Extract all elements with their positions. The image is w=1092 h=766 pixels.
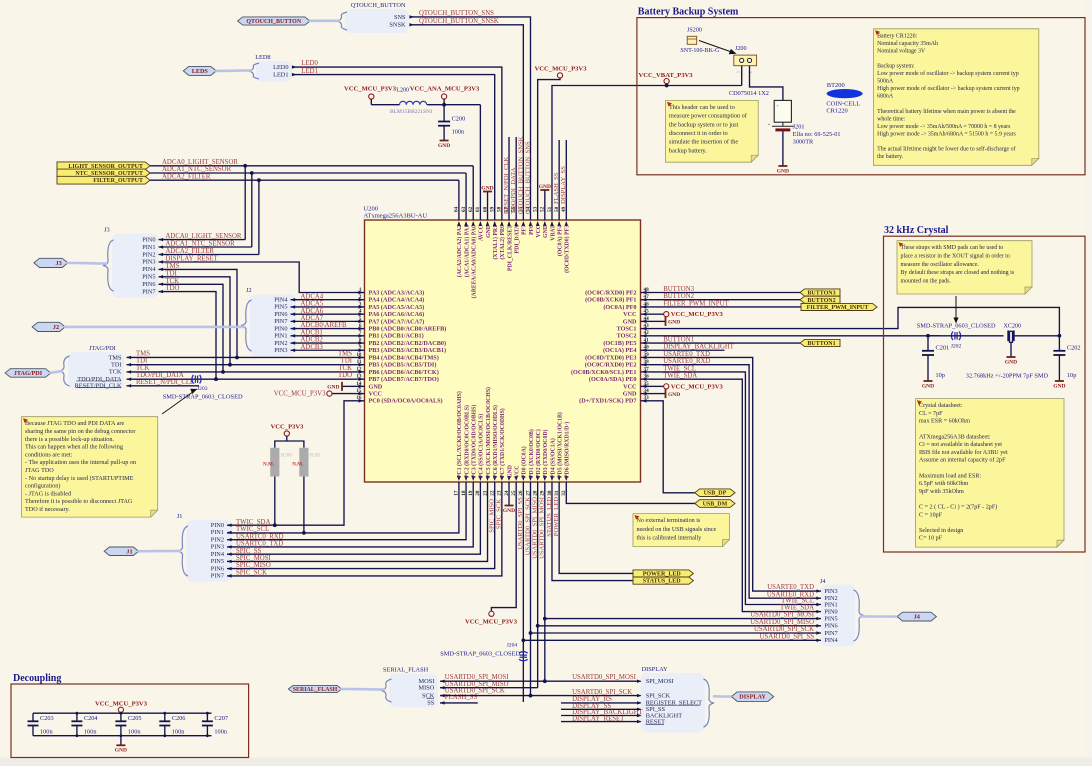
svg-text:PIN7: PIN7 bbox=[211, 573, 224, 580]
wire J3 pin4 TMS down bbox=[159, 269, 238, 357]
wire J200 pin2 to battery bbox=[750, 66, 783, 101]
svg-text:PD5 (MOSI/XCK1/OC1B): PD5 (MOSI/XCK1/OC1B) bbox=[556, 412, 563, 478]
svg-text:PA7 (ADCA7/ACA7): PA7 (ADCA7/ACA7) bbox=[369, 318, 425, 325]
U200 pin 9 PB3 bbox=[355, 349, 365, 351]
svg-text:J202: J202 bbox=[951, 344, 962, 350]
wire SF SCK row bbox=[440, 695, 531, 697]
svg-text:LEDS: LEDS bbox=[192, 68, 209, 75]
wire ADCA0 column to PA0 bbox=[472, 166, 474, 210]
svg-text:VCC_MCU_P3V3: VCC_MCU_P3V3 bbox=[465, 618, 518, 625]
connector J2 bracket bbox=[250, 295, 296, 357]
svg-text:J3: J3 bbox=[104, 227, 110, 234]
svg-text:SERIAL_FLASH: SERIAL_FLASH bbox=[383, 667, 429, 674]
svg-text:J3: J3 bbox=[56, 260, 62, 267]
svg-text:GND: GND bbox=[623, 318, 637, 325]
svg-text:(ACA2/ADCA2) PA2: (ACA2/ADCA2) PA2 bbox=[456, 225, 463, 277]
port USB_DM bbox=[695, 500, 735, 508]
svg-text:GND: GND bbox=[507, 465, 513, 478]
svg-text:These straps with SMD pads can: These straps with SMD pads can be used t… bbox=[901, 245, 1004, 251]
svg-text:SS: SS bbox=[427, 700, 435, 707]
svg-text:AVCC: AVCC bbox=[479, 225, 485, 241]
U200 pin 20 PC4 (bottom) bbox=[479, 482, 481, 492]
svg-text:32 kHz Crystal: 32 kHz Crystal bbox=[884, 225, 949, 236]
wire VBAT to battery box bbox=[552, 86, 742, 211]
svg-text:High power mode -> 35mAh/680nA: High power mode -> 35mAh/680nA = 51500 h… bbox=[877, 131, 1016, 137]
svg-text:TDO: TDO bbox=[338, 372, 352, 379]
port BUTTON2 bbox=[800, 296, 840, 303]
svg-text:SPIC_MISO: SPIC_MISO bbox=[489, 499, 496, 533]
svg-text:10p: 10p bbox=[1067, 372, 1076, 379]
svg-text:XC200: XC200 bbox=[1004, 324, 1022, 330]
svg-text:Maximum load and ESR:: Maximum load and ESR: bbox=[919, 473, 981, 479]
wire J3 pin1 to ADCA1 bbox=[159, 246, 252, 248]
svg-text:PIN6: PIN6 bbox=[274, 311, 287, 318]
svg-text:43: 43 bbox=[644, 323, 650, 329]
svg-text:PIN6: PIN6 bbox=[142, 281, 155, 288]
svg-text:PB2 (ADCB2/ACB2/DACB0): PB2 (ADCB2/ACB2/DACB0) bbox=[369, 340, 447, 347]
wire J3 pin3 display_reset to PA3 pin1 bbox=[159, 262, 355, 293]
svg-text:USARTD0_SPI_SCK: USARTD0_SPI_SCK bbox=[572, 689, 632, 696]
svg-text:SMD-STRAP_0603_CLOSED: SMD-STRAP_0603_CLOSED bbox=[440, 651, 520, 658]
wire ADCA1 ntc row bbox=[150, 172, 466, 174]
svg-text:GND: GND bbox=[922, 383, 934, 389]
svg-text:IBIS file not available for A3: IBIS file not available for A3BU yet bbox=[919, 449, 1008, 456]
svg-text:PIN0: PIN0 bbox=[211, 522, 224, 529]
arrow JS200 to J200 bbox=[699, 41, 733, 53]
decoupling bottom rail bbox=[33, 735, 212, 737]
svg-text:QTOUCH_BUTTON: QTOUCH_BUTTON bbox=[351, 2, 406, 9]
U200 pin 14 GND bbox=[355, 385, 365, 387]
svg-text:(OC0A/SDA) PE0: (OC0A/SDA) PE0 bbox=[589, 376, 637, 383]
svg-text:R201: R201 bbox=[310, 454, 321, 459]
svg-text:GND: GND bbox=[777, 168, 789, 174]
svg-text:TWIC_SCL: TWIC_SCL bbox=[236, 526, 269, 533]
svg-text:PIN5: PIN5 bbox=[274, 304, 287, 311]
svg-text:sharing the same pin on the de: sharing the same pin on the debug connec… bbox=[25, 428, 135, 435]
svg-text:PIN7: PIN7 bbox=[824, 630, 837, 637]
U200 pin 47 PF1 bbox=[641, 299, 651, 301]
svg-text:PF6: PF6 bbox=[529, 225, 535, 235]
svg-text:QTOUCH_BUTTON_SNS: QTOUCH_BUTTON_SNS bbox=[419, 10, 494, 17]
svg-text:This can happen when all the f: This can happen when all the following bbox=[25, 444, 123, 451]
svg-text:QTOUCH_BUTTON_SNSK: QTOUCH_BUTTON_SNSK bbox=[419, 18, 499, 25]
svg-text:PIN0: PIN0 bbox=[824, 608, 837, 615]
resistor R201 (N.M.) bbox=[299, 448, 308, 477]
wire TOSC1 to crystal bbox=[651, 307, 1060, 335]
svg-text:whole time:: whole time: bbox=[877, 116, 905, 122]
svg-text:VCC: VCC bbox=[623, 383, 636, 390]
power bottom VCC pin25 bbox=[491, 492, 516, 611]
svg-text:C200: C200 bbox=[452, 115, 466, 122]
svg-text:VCC: VCC bbox=[536, 225, 542, 238]
svg-text:measure the oscillator allowan: measure the oscillator allowance. bbox=[901, 262, 980, 268]
svg-text:PIN0: PIN0 bbox=[142, 236, 155, 243]
wire DISPLAY_RESET stub bbox=[561, 721, 641, 723]
svg-text:500nA: 500nA bbox=[877, 79, 894, 85]
left VCC pin15 terminal bbox=[327, 391, 332, 396]
capacitor C200 100n bbox=[443, 105, 445, 122]
wire USARTC0_RXD to PC2 bbox=[227, 492, 466, 540]
svg-text:7: 7 bbox=[359, 330, 362, 336]
svg-text:47: 47 bbox=[644, 294, 650, 300]
svg-text:PIN1: PIN1 bbox=[274, 333, 287, 340]
wire J2 ADCA7 bbox=[291, 320, 355, 322]
svg-text:SNT-100-BK-G: SNT-100-BK-G bbox=[680, 48, 720, 54]
wire DISPLAY_RS stub bbox=[561, 702, 641, 704]
U200 pin 10 PB4 bbox=[355, 356, 365, 358]
port FILTER_OUTPUT bbox=[57, 176, 150, 184]
capacitor C205 100n bbox=[120, 713, 122, 721]
svg-text:BUTTON1: BUTTON1 bbox=[807, 341, 835, 347]
svg-text:TMS: TMS bbox=[338, 350, 352, 357]
svg-text:LED0: LED0 bbox=[301, 60, 318, 67]
wire USARTD0_SPI_SCK column bbox=[530, 492, 532, 696]
note crystal datasheet bbox=[916, 399, 1065, 547]
svg-text:USB_DM: USB_DM bbox=[703, 502, 728, 508]
bus LEDS bbox=[216, 69, 251, 72]
wire USARTD0_SPI_MISO to J4 PIN6 bbox=[538, 625, 821, 627]
svg-text:PIN5: PIN5 bbox=[142, 274, 155, 281]
svg-text:9pF with 35kOhm: 9pF with 35kOhm bbox=[919, 489, 964, 495]
svg-text:PF7: PF7 bbox=[522, 225, 528, 235]
svg-text:100n: 100n bbox=[452, 129, 465, 136]
svg-text:37: 37 bbox=[644, 366, 650, 372]
U200 pin 19 PC3 (bottom) bbox=[472, 482, 474, 492]
svg-text:100n: 100n bbox=[84, 728, 97, 735]
note USB termination bbox=[633, 514, 729, 547]
U200 pin 46 PF0 bbox=[641, 306, 651, 308]
svg-text:- JTAG is disabled: - JTAG is disabled bbox=[25, 490, 72, 497]
svg-text:PD0 (OC0A): PD0 (OC0A) bbox=[521, 446, 528, 478]
wire BUTTON3 row bbox=[651, 292, 801, 294]
svg-text:Theoretical battery lifetime w: Theoretical battery lifetime when main p… bbox=[877, 108, 1016, 115]
U200 pin 49 PF3 (top) bbox=[565, 210, 567, 220]
svg-text:(OC0D/TXD0) PE3: (OC0D/TXD0) PE3 bbox=[585, 354, 636, 361]
svg-text:PIN3: PIN3 bbox=[274, 347, 287, 354]
U200 pin 52 GND (top) bbox=[544, 210, 546, 220]
svg-text:this is calibrated internally: this is calibrated internally bbox=[637, 536, 703, 542]
svg-text:TOSC2: TOSC2 bbox=[617, 333, 637, 340]
svg-text:N.M.: N.M. bbox=[263, 462, 275, 468]
ground C202 bbox=[1058, 355, 1060, 381]
decoupling top rail bbox=[33, 712, 212, 714]
svg-text:39: 39 bbox=[644, 352, 650, 358]
svg-text:PIN6: PIN6 bbox=[211, 565, 224, 572]
svg-text:PA5 (ADCA5/ACA5): PA5 (ADCA5/ACA5) bbox=[369, 304, 425, 311]
wire LED1 to PR1 bbox=[292, 75, 495, 210]
wire J2 ADCA5 bbox=[291, 306, 355, 308]
svg-text:PIN4: PIN4 bbox=[211, 551, 225, 558]
wire J3 pin5 TDI down bbox=[159, 277, 231, 365]
bus SERIAL_FLASH bbox=[342, 688, 384, 691]
svg-text:LED1: LED1 bbox=[273, 72, 288, 79]
svg-text:(OC0C/RXD0) PE2: (OC0C/RXD0) PE2 bbox=[585, 362, 637, 369]
svg-text:JTAG TDO: JTAG TDO bbox=[25, 467, 54, 474]
wire SF MISO row bbox=[440, 687, 538, 689]
svg-text:34: 34 bbox=[644, 388, 650, 394]
port SERIAL_FLASH bbox=[288, 685, 341, 692]
svg-text:Decoupling: Decoupling bbox=[13, 673, 61, 684]
svg-text:PB0 (ADCB0/ACB0/AREFB): PB0 (ADCB0/ACB0/AREFB) bbox=[369, 326, 447, 333]
note JTAG TDO sticky note bbox=[22, 417, 158, 517]
wire TWIC_SCL to PC1 bbox=[227, 492, 459, 533]
wire TOSC2 to crystal strap bbox=[651, 335, 940, 337]
svg-text:TWIE_SCL: TWIE_SCL bbox=[781, 598, 814, 605]
svg-text:there is a possible lock-up si: there is a possible lock-up situation. bbox=[25, 436, 114, 443]
svg-text:J4: J4 bbox=[914, 614, 921, 621]
decoupling section box bbox=[11, 684, 249, 758]
U200 pin 27 PD1 (bottom) bbox=[530, 482, 532, 492]
svg-text:GND: GND bbox=[623, 390, 637, 397]
wire TWIE_SDA to J4 bbox=[651, 379, 822, 611]
U200 pin 29 PD3 (bottom) bbox=[544, 482, 546, 492]
connector SERIAL_FLASH bracket bbox=[389, 674, 438, 707]
svg-text:C207: C207 bbox=[214, 715, 228, 722]
U200 pin 51 VBAT (top) bbox=[551, 210, 553, 220]
svg-text:VCC_MCU_P3V3: VCC_MCU_P3V3 bbox=[534, 65, 587, 72]
svg-text:Nominal voltage 3V: Nominal voltage 3V bbox=[877, 48, 926, 54]
svg-text:4: 4 bbox=[359, 309, 362, 315]
svg-text:measure power consumption of: measure power consumption of bbox=[669, 113, 748, 120]
wire PD6 to USB_DM bbox=[566, 492, 695, 503]
svg-text:PB6 (ADCB6/ACB6/TCK): PB6 (ADCB6/ACB6/TCK) bbox=[369, 369, 439, 376]
connector QTOUCH_BUTTON bracket bbox=[345, 9, 409, 33]
svg-text:MISO: MISO bbox=[419, 685, 435, 692]
svg-text:LED0: LED0 bbox=[273, 64, 288, 71]
U200 pin 7 PB1 bbox=[355, 335, 365, 337]
U200 pin 22 PC6 (bottom) bbox=[494, 482, 496, 492]
svg-text:conditions are met:: conditions are met: bbox=[25, 451, 73, 458]
wire LED0 to PR0 bbox=[292, 67, 502, 210]
svg-text:C201: C201 bbox=[936, 345, 950, 352]
svg-text:- No startup delay is used (ST: - No startup delay is used (STARTUPTIME bbox=[25, 475, 134, 482]
wire DISPLAY_SS stub bbox=[561, 708, 641, 710]
U200 pin 33 PD7 bbox=[641, 400, 651, 402]
U200 pin 13 PB7 bbox=[355, 378, 365, 380]
wire J2 ADCB3 bbox=[291, 349, 355, 351]
svg-text:GND: GND bbox=[668, 320, 680, 326]
power VCC pin35 bbox=[651, 385, 664, 387]
svg-text:PIN2: PIN2 bbox=[211, 536, 224, 543]
svg-text:TWIE_SCL: TWIE_SCL bbox=[663, 365, 696, 372]
arrow from JTAG note to J203 bbox=[162, 389, 197, 414]
svg-text:VCC_MCU_P3V3: VCC_MCU_P3V3 bbox=[274, 391, 326, 398]
svg-text:PA4 (ADCA4/ACA4): PA4 (ADCA4/ACA4) bbox=[369, 297, 425, 304]
wire FILTER_PWM_INPUT row bbox=[651, 306, 802, 308]
svg-text:backup battery.: backup battery. bbox=[669, 147, 707, 154]
svg-text:ADCA2_FILTER: ADCA2_FILTER bbox=[162, 173, 211, 180]
port JTAG/PDI bbox=[5, 369, 51, 378]
svg-text:CR1220: CR1220 bbox=[826, 107, 847, 114]
svg-text:RESET: RESET bbox=[646, 718, 665, 725]
svg-text:PC2 (RXD0/OC0C/OC0BLS): PC2 (RXD0/OC0C/OC0BLS) bbox=[463, 405, 470, 478]
wire J3 pin7 TDO down bbox=[159, 292, 217, 380]
U200 pin 1 PA3 bbox=[355, 292, 365, 294]
svg-text:Nominal capacity 35mAh: Nominal capacity 35mAh bbox=[877, 41, 938, 47]
wire SPIC_MOSI to PC5 bbox=[227, 492, 488, 561]
svg-text:J1: J1 bbox=[177, 513, 183, 520]
svg-text:C202: C202 bbox=[1067, 345, 1081, 352]
capacitor C201 10p bbox=[927, 336, 929, 351]
svg-text:PD2 (RXD0/OC0C): PD2 (RXD0/OC0C) bbox=[535, 429, 542, 478]
svg-text:TDI: TDI bbox=[111, 362, 122, 369]
svg-text:J4: J4 bbox=[820, 578, 826, 585]
wire TDI row bbox=[127, 364, 355, 366]
svg-text:Battery Backup System: Battery Backup System bbox=[638, 7, 739, 18]
port POWER_LED bbox=[633, 570, 693, 577]
U200 pin 17 PC1 (bottom) bbox=[458, 482, 460, 492]
ground C201 bbox=[927, 355, 929, 381]
svg-text:38: 38 bbox=[644, 359, 650, 365]
svg-text:C203: C203 bbox=[40, 715, 54, 722]
svg-text:36: 36 bbox=[644, 374, 650, 380]
svg-text:J2: J2 bbox=[53, 324, 59, 331]
bus JTAG bbox=[51, 371, 62, 373]
svg-text:QTOUCH_BUTTON_SNS: QTOUCH_BUTTON_SNS bbox=[525, 141, 532, 214]
svg-text:+: + bbox=[768, 123, 771, 128]
connector J1 bracket bbox=[186, 520, 232, 582]
svg-text:PIN7: PIN7 bbox=[274, 318, 287, 325]
svg-text:ATXmega256A3B datasheet:: ATXmega256A3B datasheet: bbox=[919, 434, 991, 440]
svg-text:(OC0C/RXD0) PF2: (OC0C/RXD0) PF2 bbox=[585, 289, 636, 296]
power VCC pin45 bbox=[651, 313, 664, 315]
svg-text:BUTTON1: BUTTON1 bbox=[663, 336, 694, 343]
U200 pin 56 PDI_DATA (top) bbox=[515, 210, 517, 220]
U200 pin 18 PC2 (bottom) bbox=[465, 482, 467, 492]
svg-text:PC4 (SS/OC1A/OC0CLS): PC4 (SS/OC1A/OC0CLS) bbox=[478, 414, 485, 478]
svg-text:PD6 (MISO/RXD1/D-): PD6 (MISO/RXD1/D-) bbox=[564, 422, 571, 478]
ground top AVCC-side GND pin60 bbox=[487, 192, 489, 211]
svg-text:PIN5: PIN5 bbox=[824, 615, 837, 622]
wire TMS row bbox=[127, 356, 355, 358]
svg-text:GND: GND bbox=[1005, 359, 1017, 365]
svg-text:GND: GND bbox=[327, 385, 339, 391]
svg-text:the backup system or to just: the backup system or to just bbox=[669, 121, 739, 128]
svg-text:PIN3: PIN3 bbox=[142, 259, 155, 266]
port QTOUCH_BUTTON bbox=[238, 17, 310, 25]
svg-text:VBAT: VBAT bbox=[550, 225, 556, 241]
U200 pin 60 GND (top) bbox=[487, 210, 489, 220]
strap J203 SMD-STRAP_0603_CLOSED bbox=[195, 375, 197, 382]
svg-text:12: 12 bbox=[356, 366, 362, 372]
wire MOSI row to DISPLAY bbox=[545, 680, 641, 682]
svg-text:1: 1 bbox=[359, 287, 362, 293]
port LEDS bbox=[183, 66, 216, 75]
svg-text:PA6 (ADCA6/ACA6): PA6 (ADCA6/ACA6) bbox=[369, 311, 425, 318]
svg-text:GND: GND bbox=[668, 392, 680, 398]
svg-text:TMS: TMS bbox=[136, 350, 150, 357]
svg-text:mounted on the pads.: mounted on the pads. bbox=[901, 278, 952, 284]
U200 pin 63 PA1 (top) bbox=[465, 210, 467, 220]
wire J3 pin2 to ADCA2 bbox=[159, 254, 259, 256]
svg-text:configuration): configuration) bbox=[25, 483, 60, 490]
svg-text:PIN4: PIN4 bbox=[142, 266, 156, 273]
svg-text:DISPLAY: DISPLAY bbox=[739, 694, 766, 701]
svg-text:PIN1: PIN1 bbox=[824, 601, 837, 608]
svg-text:C205: C205 bbox=[128, 715, 142, 722]
capacitor C203 100n bbox=[32, 713, 34, 721]
svg-text:High power mode of oscillator: High power mode of oscillator -> backup … bbox=[877, 85, 1020, 92]
svg-text:disconnect it in order to: disconnect it in order to bbox=[669, 130, 728, 137]
wire TWIE_SCL to J4 bbox=[651, 372, 822, 605]
svg-text:10p: 10p bbox=[936, 372, 945, 379]
svg-text:DISPLAY_BACKLIGHT: DISPLAY_BACKLIGHT bbox=[663, 344, 735, 351]
note battery header usage bbox=[666, 100, 759, 162]
svg-text:8: 8 bbox=[359, 337, 362, 343]
U200 pin 55 PF7 (top) bbox=[522, 210, 524, 220]
svg-text:42: 42 bbox=[644, 330, 650, 336]
svg-text:SPI_MOSI: SPI_MOSI bbox=[646, 678, 674, 685]
wire J3 pin0 to ADCA0 bbox=[159, 239, 246, 241]
wire L200 to AVCC bbox=[427, 104, 480, 106]
svg-text:680nA: 680nA bbox=[877, 94, 894, 100]
wire RESET/PDI_CLK stub bbox=[127, 385, 200, 387]
svg-text:R200: R200 bbox=[281, 454, 292, 459]
svg-text:SNSK: SNSK bbox=[389, 22, 406, 29]
U200 pin 50 PF4 (top) bbox=[558, 210, 560, 220]
svg-text:VCC: VCC bbox=[623, 311, 636, 318]
decoupling ground bbox=[120, 736, 122, 746]
svg-text:PIN5: PIN5 bbox=[211, 558, 224, 565]
svg-text:GND: GND bbox=[1053, 383, 1065, 389]
U200 pin 6 PB0 bbox=[355, 328, 365, 330]
svg-text:(OC0B/XCK0) PF1: (OC0B/XCK0) PF1 bbox=[585, 297, 636, 304]
svg-text:32.768kHz +/-20PPM 7pF SMD: 32.768kHz +/-20PPM 7pF SMD bbox=[966, 373, 1049, 380]
svg-text:USARTD0_SPI_SS: USARTD0_SPI_SS bbox=[760, 633, 815, 640]
svg-text:PC1 (SCL/XCK0/OC0B/OC0AHS): PC1 (SCL/XCK0/OC0B/OC0AHS) bbox=[456, 391, 463, 478]
svg-text:LED8: LED8 bbox=[255, 54, 270, 61]
connector J3 bracket bbox=[112, 234, 158, 298]
svg-text:PIN7: PIN7 bbox=[142, 288, 155, 295]
U200 pin 11 PB5 bbox=[355, 364, 365, 366]
svg-text:needed on the USB signals sinc: needed on the USB signals since bbox=[637, 527, 717, 533]
svg-text:BUTTON2: BUTTON2 bbox=[663, 293, 694, 300]
svg-text:GND: GND bbox=[481, 185, 493, 191]
svg-text:J2: J2 bbox=[246, 287, 252, 294]
svg-text:13: 13 bbox=[356, 374, 362, 380]
svg-text:PIN1: PIN1 bbox=[211, 529, 224, 536]
svg-text:C206: C206 bbox=[172, 715, 186, 722]
battery backup section box bbox=[637, 18, 1085, 175]
svg-text:The actual lifetime might be l: The actual lifetime might be lower due t… bbox=[877, 146, 1015, 153]
svg-text:VCC: VCC bbox=[514, 465, 520, 478]
svg-text:SERIAL_FLASH: SERIAL_FLASH bbox=[293, 687, 338, 693]
svg-text:J204: J204 bbox=[507, 643, 518, 649]
svg-text:33: 33 bbox=[644, 395, 650, 401]
wire J2 ADCA6 bbox=[291, 313, 355, 315]
U200 pin 5 PA7 bbox=[355, 320, 365, 322]
svg-text:PIN3: PIN3 bbox=[211, 544, 224, 551]
U200 pin 16 PC0 bbox=[355, 400, 365, 402]
U200 pin 3 PA5 bbox=[355, 306, 365, 308]
U200 pin 40 PE4 bbox=[641, 349, 651, 351]
port NTC_SENSOR_OUTPUT bbox=[57, 169, 150, 177]
ground pin34 bbox=[651, 393, 666, 395]
svg-text:PC5 (XCK1/MOSI/OC1B/OC0CHS): PC5 (XCK1/MOSI/OC1B/OC0CHS) bbox=[485, 387, 492, 478]
svg-text:40: 40 bbox=[644, 345, 650, 351]
arrow note to strap J202 bbox=[955, 296, 957, 319]
battery J201 plates bbox=[772, 125, 794, 127]
svg-text:C = 2 ( CL - Ci ) = 2(7pF - 2p: C = 2 ( CL - Ci ) = 2(7pF - 2pF) bbox=[919, 504, 997, 511]
svg-text:By default these straps are cl: By default these straps are closed and n… bbox=[901, 269, 1015, 276]
svg-text:(OC1B) PE5: (OC1B) PE5 bbox=[603, 340, 636, 347]
svg-text:SNS: SNS bbox=[394, 14, 406, 21]
svg-text:PIN2: PIN2 bbox=[142, 251, 155, 258]
svg-text:2: 2 bbox=[359, 294, 362, 300]
svg-text:USB_DP: USB_DP bbox=[704, 491, 727, 497]
port J4 bbox=[897, 612, 936, 621]
svg-text:Low power mode -> 35mAh/500nA: Low power mode -> 35mAh/500nA = 70000 h … bbox=[877, 124, 1011, 130]
